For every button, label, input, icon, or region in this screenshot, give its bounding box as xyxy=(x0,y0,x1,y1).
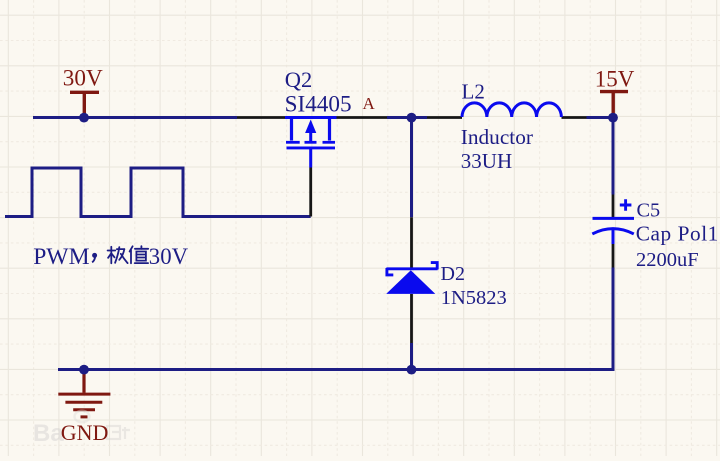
svg-text:30V: 30V xyxy=(63,65,103,91)
svg-text:15V: 15V xyxy=(595,66,635,91)
svg-text:GND: GND xyxy=(61,420,109,445)
svg-text:30V: 30V xyxy=(149,244,189,269)
svg-text:Ba: Ba xyxy=(33,420,64,447)
svg-text:PWM: PWM xyxy=(33,244,89,270)
svg-text:SI4405: SI4405 xyxy=(285,91,352,117)
svg-text:Inductor: Inductor xyxy=(461,125,533,149)
svg-text:2200uF: 2200uF xyxy=(636,249,699,271)
svg-text:Cap Pol1: Cap Pol1 xyxy=(636,222,719,246)
svg-text:L2: L2 xyxy=(462,79,485,103)
svg-text:33UH: 33UH xyxy=(461,149,512,173)
svg-text:A: A xyxy=(363,94,376,113)
svg-text:D2: D2 xyxy=(441,263,465,285)
svg-text:C5: C5 xyxy=(637,199,661,221)
svg-text:Q2: Q2 xyxy=(285,67,313,92)
svg-text:1N5823: 1N5823 xyxy=(441,287,507,309)
